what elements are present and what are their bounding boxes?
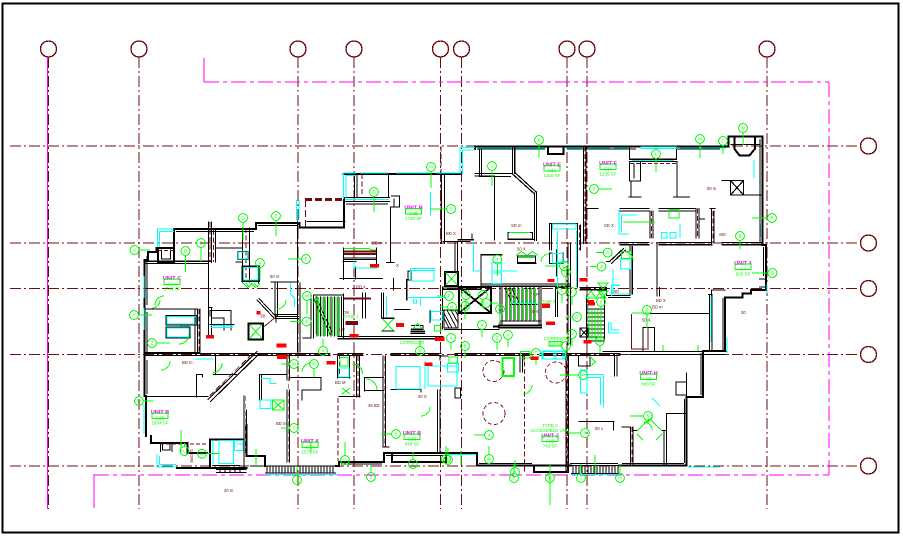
green marker 57 xyxy=(596,337,605,353)
party x567 unitJ right xyxy=(566,356,569,472)
green marker 31 xyxy=(616,464,625,482)
inner face right lower xyxy=(685,353,702,463)
svg-text:P: P xyxy=(447,294,450,299)
red tag 8 xyxy=(587,300,594,303)
cyan unitH tall rect xyxy=(581,370,588,393)
green marker 68 xyxy=(568,429,589,438)
label UNIT F xyxy=(599,161,617,177)
svg-text:S: S xyxy=(394,432,397,437)
elevator xbox left xyxy=(249,324,264,340)
svg-text:Y: Y xyxy=(506,333,509,338)
svg-text:50 x: 50 x xyxy=(595,426,604,431)
green marker 44 xyxy=(478,321,487,337)
cyan unitB closet xyxy=(354,262,377,269)
svg-text:F: F xyxy=(549,476,552,481)
F box closet xyxy=(238,252,248,260)
svg-text:925 SF: 925 SF xyxy=(736,272,751,277)
closet top wall xyxy=(217,247,243,249)
corridor bottom wall xyxy=(145,354,727,356)
bottom steps treads right xyxy=(573,466,618,474)
green marker 2 xyxy=(181,247,190,272)
cyan TS text box xyxy=(244,268,259,281)
svg-text:G: G xyxy=(575,315,579,320)
svg-text:S: S xyxy=(464,293,467,298)
svg-text:50: 50 xyxy=(261,314,266,319)
grid circle top 5 xyxy=(433,41,449,57)
green door arc 8 xyxy=(302,363,311,372)
unitF closet left xyxy=(630,162,641,181)
svg-text:J: J xyxy=(565,344,567,349)
svg-text:M: M xyxy=(292,362,296,367)
exterior notch top mid xyxy=(548,147,564,155)
exterior terrace top wall xyxy=(344,173,461,175)
green M box mid xyxy=(435,326,441,332)
grid circle top 8 xyxy=(579,41,595,57)
stairA diag xyxy=(314,297,333,334)
label UNIT J xyxy=(530,423,570,449)
cyan unitH small xyxy=(652,398,660,406)
green marker 25 xyxy=(752,269,777,278)
FS box right wing xyxy=(580,328,588,337)
closet bump right xyxy=(676,373,687,397)
exterior left wall xyxy=(151,436,207,453)
red tag 6 xyxy=(548,279,555,282)
cyan unitF kitchen corner xyxy=(619,210,637,234)
cyan F box xyxy=(239,252,248,259)
label UNIT B bottom xyxy=(403,431,421,447)
green marker 54 xyxy=(568,330,577,346)
svg-text:x60: x60 xyxy=(719,232,726,237)
green stairA hatch xyxy=(319,297,340,336)
grid circle right 4 xyxy=(861,347,877,363)
unitE kitchen walls xyxy=(481,224,581,285)
exterior raised block top-right xyxy=(728,137,762,246)
green door arc 2 xyxy=(366,379,377,390)
cyan balcony rail top-left xyxy=(158,229,175,247)
wall unitC kitchen y352-354 top xyxy=(145,352,201,354)
green marker 52 xyxy=(568,288,577,305)
core stair2 diag xyxy=(505,289,519,302)
red tag 12 xyxy=(370,264,379,268)
cyan balcony rail top-left inner xyxy=(160,232,175,248)
svg-text:30: 30 xyxy=(741,310,746,315)
green marker 56 xyxy=(597,298,606,315)
bath room mid-left walls xyxy=(273,282,299,319)
unitB closet shelves xyxy=(344,248,377,279)
svg-text:X: X xyxy=(396,263,399,268)
svg-text:B: B xyxy=(738,234,741,239)
green marker 43 xyxy=(496,305,505,322)
green door arc 12 xyxy=(541,254,549,262)
green marker 63 xyxy=(281,424,298,433)
green marker 7 xyxy=(370,188,379,212)
cyan windows left wall xyxy=(143,276,145,424)
svg-text:SLOPE: SLOPE xyxy=(189,449,194,463)
svg-text:X: X xyxy=(305,319,308,324)
cyan porch line left xyxy=(266,474,338,476)
exterior bottom wall right xyxy=(619,465,687,467)
svg-text:V: V xyxy=(487,433,490,438)
diag door tail xyxy=(263,317,276,328)
grid circle right 3 xyxy=(861,281,877,297)
cyan bay inner rail xyxy=(212,440,214,464)
bottom steps hatch left box xyxy=(216,466,336,473)
green marker 47 xyxy=(447,334,456,350)
svg-text:36 BD: 36 BD xyxy=(368,403,380,408)
green chevrons unitE xyxy=(516,252,538,258)
deck rail dashed top xyxy=(305,198,344,201)
wall x535 unitE left xyxy=(535,192,537,241)
green PA box 1 xyxy=(340,358,348,367)
property vline left xyxy=(47,57,49,509)
label UNIT E xyxy=(543,163,561,179)
green marker 34 xyxy=(180,443,189,455)
svg-text:BD M: BD M xyxy=(335,380,346,385)
grid hline 5 xyxy=(10,465,860,467)
green arrows unit4 xyxy=(598,283,608,297)
label UNIT B mid xyxy=(404,206,422,222)
green X unitA bath xyxy=(342,388,350,394)
wall x494 room xyxy=(475,147,513,241)
green HR box unitF xyxy=(669,210,679,219)
green double door unitH xyxy=(637,419,662,440)
bottom-left diag wall unitB xyxy=(208,352,260,402)
svg-text:CORRIDOR: CORRIDOR xyxy=(544,336,569,341)
svg-text:E: E xyxy=(560,288,563,293)
cyan deck rail left xyxy=(297,200,300,220)
svg-text:A: A xyxy=(133,248,136,253)
green X elevator small xyxy=(446,273,458,286)
red tag 10 xyxy=(546,321,555,325)
svg-text:50 X: 50 X xyxy=(642,318,651,323)
green marker 58 xyxy=(281,360,298,369)
grid hline 1 xyxy=(10,145,860,147)
green marker 19 xyxy=(256,259,265,280)
svg-text:K: K xyxy=(599,300,602,305)
svg-text:U: U xyxy=(484,301,487,306)
green marker 18 xyxy=(545,262,568,271)
red tag 14 xyxy=(257,311,261,315)
unitB kitchen bottom wall xyxy=(391,390,421,393)
wall x297 deck side xyxy=(298,221,301,352)
green stairB hatch xyxy=(589,310,601,340)
party x437-443 unitB right xyxy=(438,356,449,453)
bay left wall xyxy=(210,440,247,469)
svg-text:Z: Z xyxy=(496,336,499,341)
halfwall unit4 bed xyxy=(632,314,650,349)
red tag 18 xyxy=(206,335,214,339)
svg-text:H: H xyxy=(570,332,573,337)
inner face top-left wall xyxy=(176,204,388,232)
grid circle top 4 xyxy=(346,41,362,57)
svg-text:M: M xyxy=(200,451,204,456)
svg-text:V: V xyxy=(463,304,466,309)
deck rail dashed left xyxy=(305,200,307,227)
corridor right wing top y243.5 xyxy=(620,243,762,245)
green marker 27 xyxy=(341,442,350,464)
core bottom bar xyxy=(494,326,541,328)
unitA closet W/D xyxy=(338,356,351,378)
stairA treads xyxy=(317,297,342,336)
green marker 41 xyxy=(482,299,498,308)
green marker 30 xyxy=(577,464,586,482)
unitJ walls xyxy=(455,354,524,398)
green M box xyxy=(622,252,631,259)
green xbox unitA xyxy=(273,400,285,410)
left rooms x198 wall xyxy=(198,309,201,352)
green marker 50 xyxy=(562,268,571,285)
core stair2 treads xyxy=(506,287,534,321)
green PA box 2 xyxy=(449,357,458,363)
green marker 32 xyxy=(293,466,302,484)
green marker 14 xyxy=(590,185,612,194)
wall party C x209 xyxy=(209,222,216,263)
cyan window band y147 top wall xyxy=(478,147,726,149)
exterior inner face lines xyxy=(147,139,764,466)
cyan terrace rail2 xyxy=(346,176,356,200)
svg-text:SD X: SD X xyxy=(604,223,614,228)
green leader line long 2 xyxy=(509,232,530,234)
red tag 2 xyxy=(277,355,287,359)
grid circle top 2 xyxy=(131,41,147,57)
svg-text:A: A xyxy=(606,250,609,255)
grid hline 4 xyxy=(10,354,860,356)
wall y414 unitH xyxy=(667,413,687,415)
green door arc 6 xyxy=(644,415,652,430)
label UNIT 4 xyxy=(734,261,752,277)
cyan unitB counter xyxy=(408,268,445,306)
svg-text:50 m: 50 m xyxy=(707,186,717,191)
cyan bottom-left balcony ticks xyxy=(143,420,145,434)
green marker 12 xyxy=(696,135,705,158)
wall x636 unitF xyxy=(629,181,641,197)
grid vline 7 xyxy=(566,57,568,509)
cyan bottom line right xyxy=(447,455,720,475)
green marker 9 xyxy=(488,162,497,186)
svg-text:G: G xyxy=(372,190,376,195)
red tag 7 xyxy=(579,278,587,281)
bath walls x651 xyxy=(650,211,653,238)
wall x569 unitE lower xyxy=(568,244,571,346)
svg-text:CORRIDOR: CORRIDOR xyxy=(400,340,425,345)
green marker 40 xyxy=(479,291,488,308)
green marker 26 xyxy=(643,306,652,328)
wall y199-202 terrace bottom xyxy=(344,198,390,202)
stairB treads xyxy=(587,309,605,337)
green door arc 5b xyxy=(161,361,170,370)
grid vline 9 xyxy=(766,57,768,509)
svg-text:J: J xyxy=(491,164,493,169)
fan dashed circle 3 xyxy=(546,362,567,383)
cyan unit4 closet xyxy=(588,269,767,309)
svg-text:BD m: BD m xyxy=(182,360,193,365)
stairB right wing walls xyxy=(587,296,605,341)
wall party x584 unitEF xyxy=(584,147,599,244)
exterior bottom wall mid xyxy=(336,453,534,466)
grid circle top 3 xyxy=(290,41,306,57)
bath walls x697 xyxy=(696,209,705,239)
green marker 20 xyxy=(303,292,312,314)
wall y180 xbox top xyxy=(722,181,762,196)
svg-text:UP: UP xyxy=(339,327,345,332)
green marker 39 xyxy=(462,291,471,308)
green door arc 4 xyxy=(179,334,189,344)
green marker 21 xyxy=(290,317,311,326)
green door arc 7 xyxy=(625,252,633,260)
wall x390 down xyxy=(387,207,395,263)
green marker 66 xyxy=(485,446,494,463)
green door arc 11 xyxy=(243,283,256,288)
green marker 37 xyxy=(437,292,453,301)
exterior wall step to upper terrace xyxy=(343,199,345,228)
bath cyan sill xyxy=(196,358,213,360)
closet redlines xyxy=(344,252,377,299)
cyan unitE kitchen verticals xyxy=(558,231,577,287)
green marker 65 xyxy=(474,431,493,440)
core stair2 mid rail xyxy=(500,305,541,322)
green marker 15 xyxy=(752,214,776,223)
unitF entry recess xyxy=(630,147,677,162)
grid vline 2 xyxy=(138,57,140,509)
svg-text:BD m: BD m xyxy=(276,421,287,426)
svg-text:V: V xyxy=(258,261,261,266)
unit4 bottom walls xyxy=(712,290,726,296)
green stairA arrow xyxy=(314,298,319,334)
green marker 69 xyxy=(590,262,606,271)
cyan unitJ kitchen band xyxy=(425,360,457,389)
green stairB triangles xyxy=(586,291,606,298)
cyan terrace rail xyxy=(344,173,357,199)
cyan W/D boxes xyxy=(260,296,459,409)
inner face top wall xyxy=(477,149,720,177)
SD shelf unitE xyxy=(508,233,534,240)
wall party x242-250 TS shaft xyxy=(236,228,250,282)
cyan unit4 FS box xyxy=(620,259,630,269)
grid vline 6 xyxy=(461,57,463,509)
core elevator big box xyxy=(459,287,491,313)
green marker 45 xyxy=(504,331,513,347)
red tag 16 xyxy=(396,323,404,327)
cyan unitB2 kitchen rect xyxy=(396,367,420,390)
grid vline 4 xyxy=(353,57,355,509)
wall x245 lower xyxy=(244,396,247,468)
wall unitB bottom y279 xyxy=(340,267,443,333)
unit4 interior xyxy=(760,279,766,287)
green marker 70 xyxy=(596,248,612,257)
svg-text:G: G xyxy=(579,476,583,481)
grid vline 8 xyxy=(586,57,588,509)
green marker 74 xyxy=(367,465,376,481)
shelf y325 xyxy=(210,324,234,326)
green marker 10 xyxy=(535,136,544,158)
red tag 3 xyxy=(327,361,336,365)
party wall centerlines dashed xyxy=(199,147,713,473)
red tag 13 xyxy=(588,302,595,305)
green marker 75 xyxy=(444,448,453,464)
green door arc 9 xyxy=(421,407,430,416)
cyan window corner top2 xyxy=(462,150,475,174)
grid circle right 1 xyxy=(861,138,877,154)
svg-text:1834 SF: 1834 SF xyxy=(151,421,168,426)
wall x355 upper xyxy=(355,174,358,198)
label UNIT H xyxy=(639,371,657,387)
green door arc 5c xyxy=(212,363,222,373)
unitH double door wall xyxy=(633,414,667,466)
green marker 5 xyxy=(272,212,281,236)
svg-text:844 SF: 844 SF xyxy=(405,442,420,447)
svg-text:741 SF: 741 SF xyxy=(543,444,558,449)
unitH room walls x631 xyxy=(622,427,633,466)
deck rail wall y222 xyxy=(307,221,345,223)
core top walls xyxy=(444,284,571,289)
svg-text:1150 SF: 1150 SF xyxy=(544,173,561,178)
grid circle top 6 xyxy=(454,41,470,57)
cyan right wing L xyxy=(612,285,621,296)
grid vline 1 xyxy=(48,57,50,509)
cyan unitJ boxes xyxy=(543,352,565,360)
svg-text:F: F xyxy=(571,290,574,295)
svg-text:H: H xyxy=(429,165,432,170)
inner face bottom wall xyxy=(212,456,684,466)
cyan unitH kitchen L xyxy=(584,375,604,408)
green door arc 5 xyxy=(155,296,164,305)
property line group xyxy=(48,57,830,509)
svg-text:ACCESSIBLE UNIT: ACCESSIBLE UNIT xyxy=(530,428,570,433)
svg-text:B: B xyxy=(771,271,774,276)
entry recess bottom-left inner xyxy=(163,445,171,451)
unitH closet x615 xyxy=(615,354,618,376)
unitJ entry walls xyxy=(520,354,523,372)
exterior wall step up to top xyxy=(475,147,728,150)
dark red small texts xyxy=(180,186,746,493)
svg-text:T: T xyxy=(496,257,499,262)
inner face right wall xyxy=(723,139,764,350)
green marker 6 xyxy=(288,255,310,264)
property vline bottom-left xyxy=(93,474,95,508)
dashed recess entry xyxy=(158,164,676,445)
svg-text:1745 SF: 1745 SF xyxy=(163,287,180,292)
svg-text:T: T xyxy=(293,426,296,431)
label UNIT B left xyxy=(151,410,169,426)
core shaft hatch xyxy=(444,310,458,328)
svg-text:N: N xyxy=(312,362,315,367)
cyan unitE shelf xyxy=(553,224,577,229)
right wing corridor bottom y288.5 xyxy=(580,288,630,298)
green X shaft mid xyxy=(383,319,394,331)
green marker 17 xyxy=(493,255,502,276)
green door arc 3 xyxy=(277,300,286,309)
exterior left top steps xyxy=(145,230,175,264)
cyan bay bottom-left2 xyxy=(160,456,177,465)
svg-text:SD m: SD m xyxy=(511,223,522,228)
property hline bottom xyxy=(94,474,829,476)
bottom steps treads left xyxy=(267,466,333,473)
green door arc 1 xyxy=(353,364,363,374)
red tag 5 xyxy=(531,357,539,361)
green marker 49 xyxy=(532,349,541,365)
wall unitC bottom y309 xyxy=(145,309,198,352)
left kitchen bump xyxy=(210,311,231,331)
svg-text:A: A xyxy=(449,336,452,341)
svg-text:50 X: 50 X xyxy=(517,247,526,252)
exterior right lower step xyxy=(687,351,726,466)
svg-text:T: T xyxy=(482,293,485,298)
green marker 29 xyxy=(546,464,555,482)
wall party x513 diag unitE xyxy=(513,147,537,194)
corridor wall right section y351 xyxy=(603,351,726,353)
wall under deck y262 xyxy=(145,261,357,309)
svg-text:STAIR 1: STAIR 1 xyxy=(343,314,359,319)
